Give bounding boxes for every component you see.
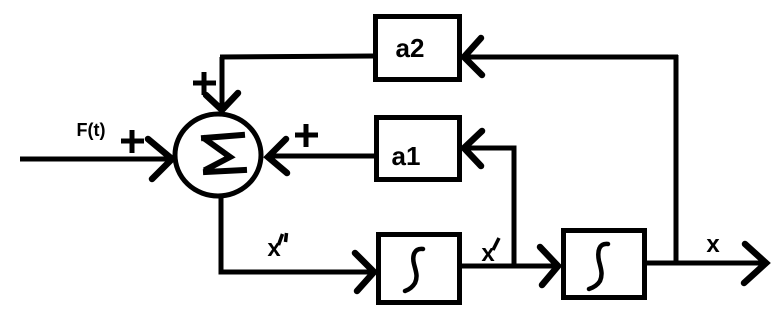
wire into a1 from x'	[466, 148, 514, 267]
arrowhead into a2	[464, 38, 482, 75]
wire feedback x vertical	[674, 55, 679, 263]
sigma symbol	[204, 135, 244, 172]
integral sign 1	[405, 249, 423, 291]
arrowhead into summer right	[268, 139, 287, 173]
block a1	[377, 118, 460, 180]
svg-text:x: x	[706, 231, 720, 258]
svg-text:a1: a1	[392, 141, 421, 171]
plus sign input	[121, 130, 144, 153]
arrowhead into integrator 2	[540, 247, 558, 285]
summing junction U1	[175, 114, 261, 196]
arrowhead into a1	[464, 131, 482, 166]
svg-text:F(t): F(t)	[77, 120, 106, 140]
label x''	[267, 233, 286, 262]
wire summer output down and right	[221, 194, 372, 272]
arrowhead into summer top	[206, 93, 238, 110]
integral sign 2	[589, 244, 608, 289]
plus sign right	[295, 124, 318, 147]
arrowhead into summer left	[148, 139, 172, 179]
integrator block 1	[379, 235, 460, 303]
label x'	[481, 238, 499, 267]
wire output x	[647, 261, 762, 266]
wire summer top vertical	[220, 57, 225, 108]
block a2	[376, 17, 460, 80]
wire a2 output horizontal	[220, 56, 373, 57]
wire into a2 from feedback	[465, 55, 678, 60]
wire integrator1 output	[462, 264, 556, 269]
wire a1 output to summer	[271, 154, 374, 159]
plus sign top	[193, 72, 216, 95]
arrowhead into integrator 1	[355, 253, 374, 291]
integrator block 2	[564, 231, 645, 298]
wire input F(t)	[20, 157, 170, 162]
arrowhead output	[744, 244, 766, 283]
svg-text:x: x	[481, 240, 495, 267]
svg-text:a2: a2	[396, 33, 425, 63]
